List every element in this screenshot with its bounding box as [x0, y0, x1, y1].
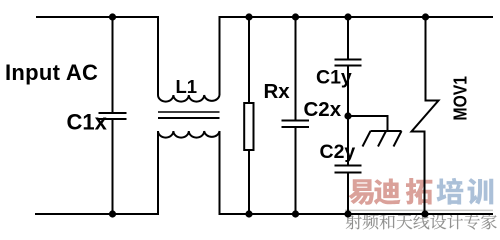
wire: bottom rail left segment into L1 bottom winding left lead	[35, 131, 158, 214]
resistor Rx body	[244, 103, 253, 150]
wire: top rail left segment into L1 top winding left lead	[36, 17, 158, 95]
wire: C1y bottom to node with C2y and ground	[347, 67, 349, 165]
watermark subtitle char 线	[413, 214, 429, 230]
svg-text:C1y: C1y	[316, 67, 352, 89]
watermark subtitle char 计	[447, 214, 463, 229]
chassis ground bar	[371, 130, 402, 132]
wire: L1 bottom winding right lead down to bottom rail right segment	[220, 131, 494, 214]
svg-text:MOV1: MOV1	[450, 76, 471, 121]
watermark title char 训	[468, 178, 494, 205]
junction dot: C2x at top rail	[292, 13, 299, 20]
watermark title char 易	[348, 179, 374, 205]
resistor Rx top lead wire	[248, 17, 250, 103]
junction dot: MOV1 at top rail	[422, 13, 429, 20]
watermark title char 拓	[406, 178, 433, 205]
svg-text:C2y: C2y	[320, 141, 356, 163]
watermark subtitle char 家	[481, 214, 497, 230]
capacitor C1y top lead wire	[347, 17, 349, 59]
junction dot: C1x at top rail	[109, 13, 116, 20]
watermark subtitle char 天	[396, 214, 412, 229]
junction dot: node between C1y C2y and ground	[344, 112, 351, 119]
inductor L1 core line lower	[158, 117, 220, 119]
capacitor C2y top plate	[335, 165, 362, 167]
watermark subtitle char 频	[363, 214, 379, 230]
svg-text:Input AC: Input AC	[5, 60, 98, 85]
inductor L1 core line upper	[158, 111, 220, 113]
varistor MOV1 (zigzag symbol with top and bottom leads)	[412, 17, 439, 214]
junction dot: Rx at bottom rail	[245, 210, 252, 217]
junction dot: C1y at top rail	[344, 13, 351, 20]
inductor L1 bottom winding (4 arcs)	[158, 131, 220, 138]
watermark subtitle char 射	[346, 214, 362, 230]
capacitor C1y bottom plate	[335, 65, 362, 67]
capacitor C2x top lead wire	[295, 17, 297, 120]
junction dot: C1x at bottom rail	[109, 210, 116, 217]
watermark title char 迪	[374, 179, 401, 205]
capacitor C1x bottom plate	[99, 118, 127, 120]
capacitor C2x bottom plate	[282, 126, 310, 128]
wire: L1 top winding right lead up to top rail right segment	[220, 17, 494, 95]
junction dot: C2x at bottom rail	[292, 210, 299, 217]
resistor Rx bottom lead wire	[248, 150, 250, 214]
chassis ground hatch stroke left	[363, 131, 371, 147]
watermark subtitle char 设	[430, 214, 446, 229]
chassis ground hatch stroke middle	[378, 131, 386, 147]
watermark subtitle char 和	[380, 214, 395, 230]
capacitor C1x bottom lead wire	[112, 120, 114, 214]
junction dot: C2y at bottom rail	[344, 210, 351, 217]
svg-text:Rx: Rx	[264, 80, 291, 103]
svg-text:C2x: C2x	[304, 98, 342, 121]
wire: node to chassis ground	[348, 116, 388, 130]
capacitor C1x top plate	[99, 112, 127, 114]
capacitor C2y bottom lead wire	[347, 174, 349, 215]
chassis ground hatch stroke right	[394, 131, 402, 147]
capacitor C2x top plate	[282, 120, 310, 122]
watermark title char 培	[437, 178, 464, 205]
capacitor C1y top plate	[335, 59, 362, 61]
capacitor C2y bottom plate	[335, 172, 362, 174]
junction dot: MOV1 at bottom rail	[421, 210, 428, 217]
capacitor C2x bottom lead wire	[295, 128, 297, 214]
watermark subtitle char 专	[464, 214, 480, 230]
capacitor C1x top lead wire	[112, 17, 114, 112]
inductor L1 top winding (4 arcs)	[158, 95, 220, 102]
watermark underline	[345, 210, 493, 212]
svg-text:L1: L1	[176, 76, 198, 97]
svg-text:C1x: C1x	[67, 110, 108, 135]
junction dot: Rx at top rail	[245, 13, 252, 20]
